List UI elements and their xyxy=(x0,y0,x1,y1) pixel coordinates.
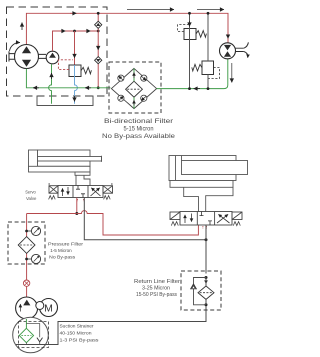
gauge G1 xyxy=(25,230,28,233)
motor M1 xyxy=(220,43,236,59)
pump P1 xyxy=(15,45,39,69)
bi-directional filter enclosure xyxy=(109,62,161,113)
return to tank line xyxy=(16,304,206,345)
pump P3 xyxy=(16,297,38,319)
RV1 pilot dashed red xyxy=(58,60,73,70)
relief valve RV2 top right xyxy=(184,29,196,40)
grey T return from V2 to filter xyxy=(205,225,207,274)
svg-text:40-150 Micron: 40-150 Micron xyxy=(60,331,92,337)
return filter diamond xyxy=(198,286,214,299)
red A-line top xyxy=(26,13,228,44)
red supply horizontal xyxy=(27,213,77,215)
return filter junctions xyxy=(205,276,208,279)
svg-text:15-50 PSI By-pass: 15-50 PSI By-pass xyxy=(136,292,177,298)
relief valve RV1 square xyxy=(69,65,81,77)
test point xyxy=(23,280,29,286)
check valve CV2 xyxy=(95,57,102,64)
strainer bypass check xyxy=(26,324,39,345)
charge manifold red xyxy=(53,31,99,51)
bypass check valve xyxy=(194,278,207,305)
V2 box arrows xyxy=(184,215,186,223)
shaft coupling to charge pump xyxy=(39,54,47,58)
flow arrow right on A-line xyxy=(70,12,77,14)
V1 box arrows xyxy=(62,188,64,196)
strainer diamond xyxy=(19,328,33,342)
grey direction overline xyxy=(127,9,174,11)
flow arrow beside motor return xyxy=(231,63,233,83)
bridge check circle TR xyxy=(141,75,147,81)
charge pump P2 xyxy=(46,51,59,64)
electric motor xyxy=(40,299,58,317)
check valve CV1 xyxy=(95,21,102,28)
svg-text:M: M xyxy=(44,302,53,314)
enclosure pump unit dashed box xyxy=(7,7,108,96)
pressure filter dashed box xyxy=(8,222,45,264)
cylinder C1 ports xyxy=(76,175,90,185)
svg-text:1-5 Micron: 1-5 Micron xyxy=(50,248,72,254)
charge suction green xyxy=(49,64,52,104)
green line filter to motor xyxy=(157,59,228,89)
gauge G2 xyxy=(25,258,28,261)
relief branch red xyxy=(74,31,76,65)
red branch to valve V2 xyxy=(77,211,199,235)
svg-text:Return Line Filter: Return Line Filter xyxy=(134,279,180,285)
RV1 spring xyxy=(81,67,91,74)
green bridge verticals xyxy=(133,68,135,108)
pump shaft left xyxy=(9,51,15,61)
servo valve V2 xyxy=(170,212,242,226)
svg-text:Pressure Filter: Pressure Filter xyxy=(48,241,83,247)
make-up line red vertical xyxy=(97,13,99,88)
rotation arrow xyxy=(10,43,21,51)
cylinder C2 xyxy=(169,156,248,188)
green B-line main xyxy=(26,69,110,88)
flow arrow up beside pump line xyxy=(21,23,23,31)
svg-text:1-3 PSI By-pass: 1-3 PSI By-pass xyxy=(60,338,100,344)
svg-text:Servo: Servo xyxy=(25,189,36,195)
center filter diamond xyxy=(126,81,143,97)
reservoir xyxy=(13,317,49,353)
cylinder C1 xyxy=(29,150,102,175)
svg-text:Valve: Valve xyxy=(26,196,37,202)
suction strainer dashed box xyxy=(19,322,49,348)
red P line from valve V1 xyxy=(76,198,78,214)
coupling xyxy=(36,302,44,310)
svg-text:Bi-directional Filter: Bi-directional Filter xyxy=(104,119,173,125)
motor shaft arrows xyxy=(244,42,249,48)
svg-text:No By-pass Available: No By-pass Available xyxy=(102,134,176,140)
tank U manifold xyxy=(37,96,93,106)
grey T return from V1 xyxy=(84,198,206,240)
green suction line xyxy=(25,319,27,328)
filter F1 diamond xyxy=(18,237,35,254)
svg-text:No By-pass: No By-pass xyxy=(49,254,76,260)
flow arrow down into motor xyxy=(227,32,229,39)
svg-text:3-25 Micron: 3-25 Micron xyxy=(142,286,170,292)
svg-text:5-15 Micron: 5-15 Micron xyxy=(124,127,154,133)
bridge diamond xyxy=(111,68,156,108)
blue drain line xyxy=(75,77,78,104)
svg-text:Suction Strainer: Suction Strainer xyxy=(60,324,94,330)
relief valve RV3 xyxy=(202,61,214,75)
servo valve V1 xyxy=(48,184,112,199)
cylinder C2 ports xyxy=(184,187,233,211)
bridge check circle TL xyxy=(118,75,124,81)
bridge check circle BL xyxy=(118,95,124,101)
return line filter dashed box xyxy=(181,271,221,310)
red supply vertical through filter xyxy=(26,214,28,298)
bridge check circle BR xyxy=(141,95,147,101)
